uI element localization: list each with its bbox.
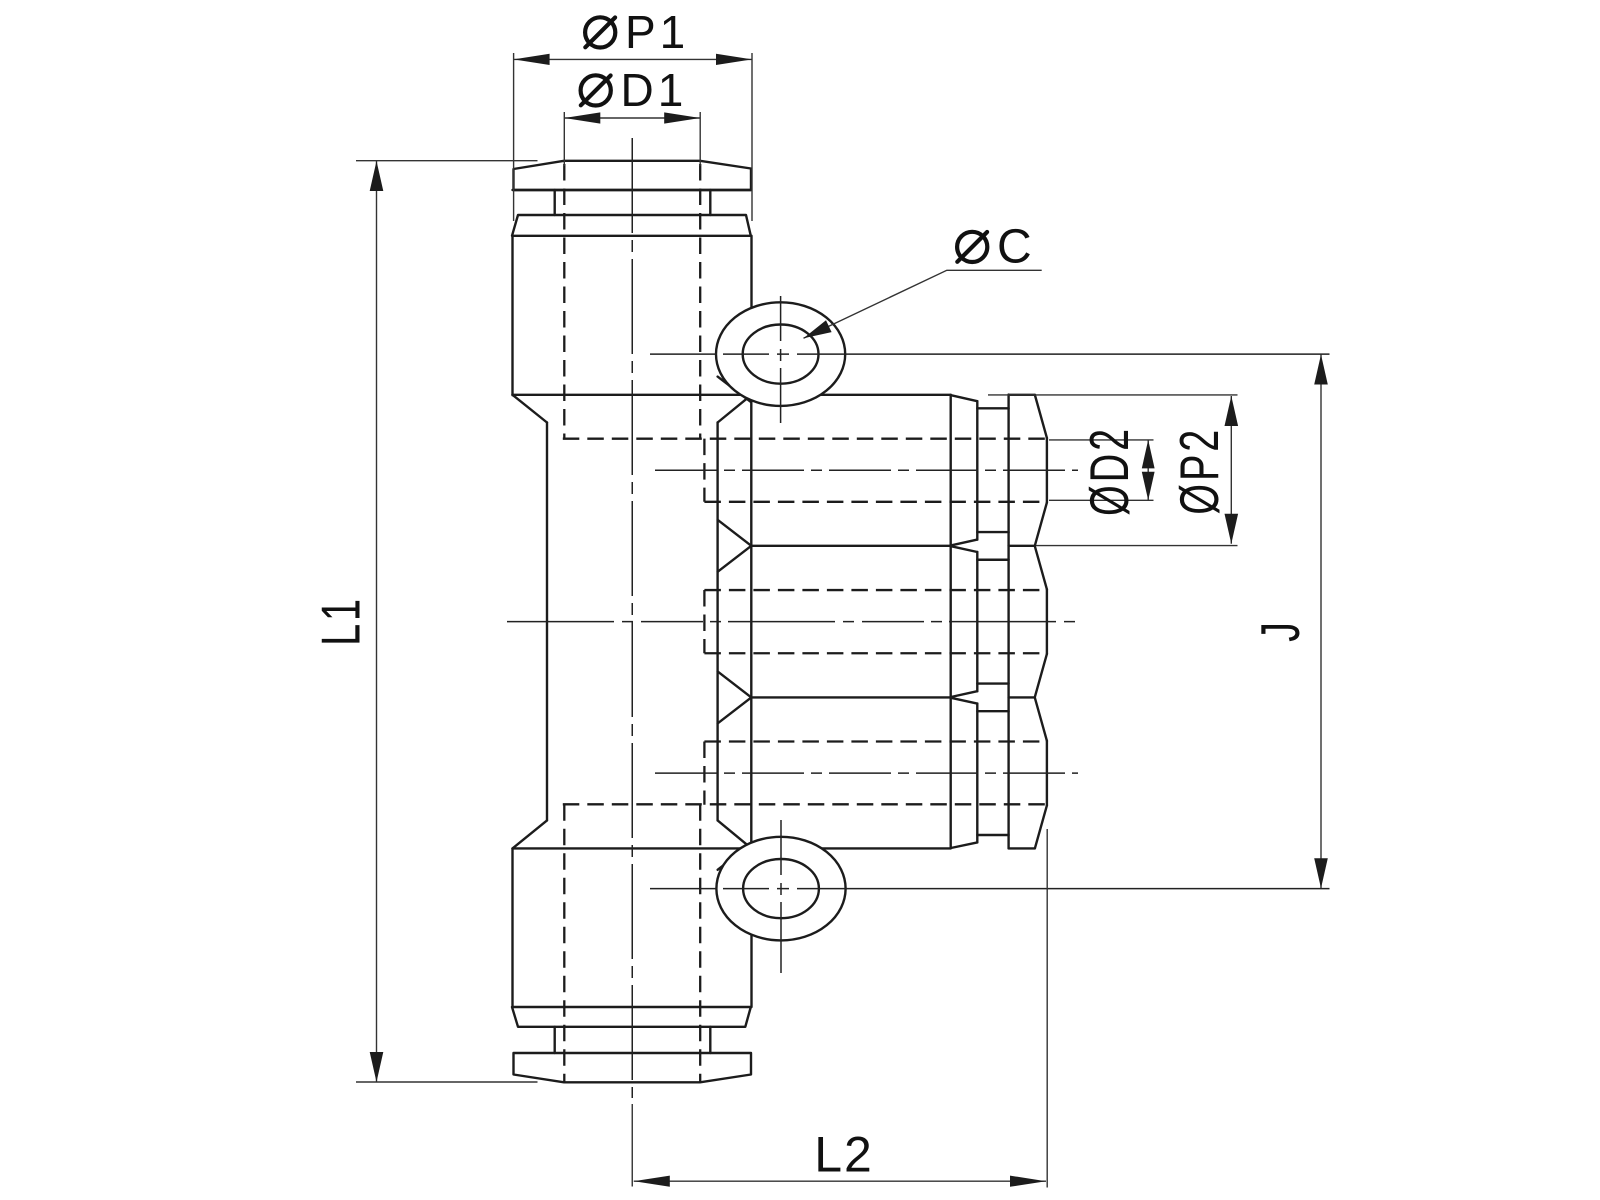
top circle horizontal center line / J extension [650,353,1330,355]
svg-text:J: J [1251,619,1312,642]
cap outer face [1046,438,1048,503]
top connector collet cap [514,161,752,190]
hidden bottom branch bore upper [704,740,1047,742]
top collet neck left [554,190,556,215]
svg-text:ØP2: ØP2 [1170,427,1231,515]
cap edge line [1009,545,1035,547]
label D1 [581,75,611,105]
top body left edge [511,236,513,395]
dimension P1 [513,53,515,221]
barrels left edge [750,396,752,846]
bottom barrel lower-left chamfer [718,844,752,870]
hidden branch counterbore floor [703,742,705,805]
top barrel upper-left chamfer [718,377,752,403]
hidden bottom counterbore floor + bottom branch bore lower [563,803,1047,805]
collet ring step lower [977,682,1008,684]
bottom release ring [512,1007,751,1027]
bottom body left bevel [513,820,548,848]
barrel end chamfer [951,540,977,546]
collet ring step lower [977,531,1008,533]
side port circle C (top) [716,302,845,406]
junction notch lower slant [718,546,752,572]
barrel end chamfer [951,546,977,552]
cap column left edge [1007,395,1009,849]
svg-text:C: C [997,221,1036,274]
bottom body left edge [511,848,513,1007]
svg-text:P1: P1 [625,6,689,58]
cap upper bevel [1035,698,1047,741]
cap upper bevel [1035,395,1047,438]
hidden branch counterbore floor [703,590,705,653]
top cap bottom edge [513,189,752,191]
dimension J [1320,355,1322,889]
collet ring step upper [977,710,1008,712]
dimension D1 [563,112,565,166]
label L1 [311,596,372,646]
junction notch upper slant [718,671,752,697]
svg-text:D1: D1 [621,64,688,116]
cap lower bevel [1035,503,1047,546]
junction notch lower slant [718,697,752,723]
collet ring step lower [977,834,1008,836]
barrel end chamfer [951,691,977,697]
hidden top bore line left [563,164,565,439]
hidden bottom bore line left [563,804,565,1082]
bottom body top / bottom barrel bottom edge [513,847,951,849]
bottom circle vertical center line [780,820,782,973]
bottom branch center line [655,772,1078,774]
dimension L1 [356,160,538,162]
barrel junction line y=697.4 [751,696,950,698]
bottom collet neck right [709,1027,711,1053]
top body left bevel [513,395,548,423]
svg-text:ØD2: ØD2 [1080,426,1141,516]
cap outer face [1046,741,1048,806]
main vertical center line [631,138,633,1098]
cap lower bevel [1035,805,1047,848]
label P2 [1170,427,1231,515]
cap lower bevel [1035,654,1047,697]
hidden middle branch bore upper [704,589,1047,591]
middle branch center line [507,621,1078,623]
collet ring outer vertical [976,401,978,539]
trunk left edge [546,423,548,821]
top body bottom / top barrel top edge [513,394,951,396]
junction notch upper slant [718,520,752,546]
dimension L2 [1046,829,1048,1188]
hidden top branch bore lower [704,501,1047,503]
barrels end face [950,395,952,849]
dimension P2 [988,394,1238,396]
cap outer face [1046,589,1048,654]
bottom body right edge [750,848,752,1007]
collet ring step upper [977,559,1008,561]
collet ring step upper [977,407,1008,409]
cap edge line [1009,696,1035,698]
collet ring outer vertical [976,552,978,691]
top collet neck right [709,190,711,215]
top branch center line [655,469,1078,471]
hidden top bore line right [699,164,701,439]
label C [957,232,987,262]
hidden top counterbore floor + top branch bore upper [563,438,1047,440]
bottom collet neck left [554,1027,556,1053]
cap upper bevel [1035,546,1047,589]
label P1 [585,17,615,47]
svg-text:L1: L1 [311,596,372,646]
barrel end chamfer [951,698,977,704]
bottom connector collet cap [514,1053,752,1082]
dimension C leader [804,270,1042,338]
hidden middle branch bore lower [704,652,1047,654]
dimension D2 [1049,439,1154,441]
top body right bevel [718,395,752,423]
svg-text:L2: L2 [814,1127,874,1183]
top circle vertical center line [780,296,782,423]
main center line extension to L2 [631,1104,633,1187]
label D2 [1080,426,1141,516]
top body right edge [750,236,752,395]
top release ring [512,215,751,236]
cap edge line [1009,394,1035,396]
hidden branch counterbore floor [703,439,705,502]
bottom body right bevel [718,820,752,848]
barrel end chamfer [951,842,977,848]
trunk right edge [716,423,718,821]
bottom circle horizontal center line / J extension [650,888,1330,890]
label J [1251,619,1312,642]
collet ring outer vertical [976,704,978,843]
barrel end chamfer [951,395,977,401]
cap edge line [1009,847,1035,849]
hidden bottom bore line right [699,804,701,1082]
barrel junction line y=545.8 [751,545,950,547]
side port circle C (bottom) [716,837,845,941]
